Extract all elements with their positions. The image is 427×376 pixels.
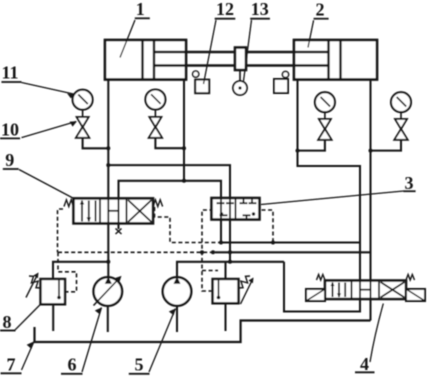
svg-text:10: 10 bbox=[1, 120, 19, 140]
svg-text:8: 8 bbox=[3, 312, 12, 332]
svg-text:12: 12 bbox=[216, 0, 234, 19]
svg-text:11: 11 bbox=[1, 63, 18, 83]
svg-text:1: 1 bbox=[136, 0, 145, 19]
svg-text:7: 7 bbox=[7, 355, 16, 375]
svg-text:13: 13 bbox=[251, 0, 269, 19]
svg-text:3: 3 bbox=[405, 173, 414, 193]
svg-text:5: 5 bbox=[135, 355, 144, 375]
svg-text:4: 4 bbox=[360, 354, 369, 374]
svg-text:6: 6 bbox=[68, 355, 77, 375]
svg-text:2: 2 bbox=[316, 0, 325, 20]
svg-text:9: 9 bbox=[5, 150, 14, 170]
